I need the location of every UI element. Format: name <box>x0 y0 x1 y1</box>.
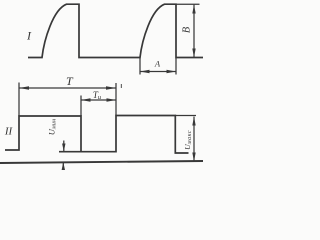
svg-text:II: II <box>4 126 14 138</box>
svg-text:A: A <box>154 59 161 69</box>
svg-text:В: В <box>181 26 192 33</box>
